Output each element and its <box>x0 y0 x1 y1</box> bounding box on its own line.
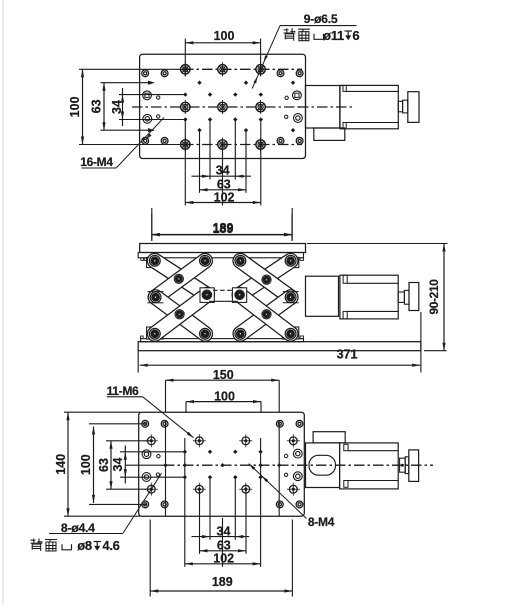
svg-text:16-M4: 16-M4 <box>80 155 113 169</box>
top view: horizontal center line row middle <box>132 106 303 108</box>
top view: leader 9-ø6.5 counterbore note <box>252 12 359 89</box>
side view: motor shaft <box>398 292 404 302</box>
svg-text:34: 34 <box>110 100 124 114</box>
bottom view: lower dimension 189 <box>150 575 292 593</box>
top view: horizontal center line row 1 <box>79 68 302 70</box>
svg-text:9-ø6.5: 9-ø6.5 <box>304 12 338 26</box>
top view: horizontal center line row bottom <box>79 144 302 146</box>
top view: lower dimension 189 <box>152 222 292 236</box>
bottom view: horizontal center line <box>126 464 316 466</box>
bottom view: leader 8-M4 <box>249 464 335 530</box>
svg-text:8-M4: 8-M4 <box>308 515 335 529</box>
side view: drive bracket <box>306 276 339 316</box>
bottom view: dimension 150 (top) <box>166 368 280 412</box>
bottom view: drive bracket top tab <box>313 432 345 443</box>
svg-text:63: 63 <box>97 458 111 472</box>
top view: 16 tapped holes M4 corner groups <box>142 70 303 144</box>
bottom view: leader 8-ø4.4 counterbore note <box>31 473 162 553</box>
side view: bottom carriage rail <box>141 336 304 342</box>
side view: motor body <box>340 275 398 319</box>
bottom view: left dimension 140 <box>54 412 70 516</box>
top view: left dimension 100 <box>68 69 183 144</box>
svg-text:63: 63 <box>217 177 231 191</box>
bottom view: vertical extension lines inside plate <box>166 421 280 516</box>
svg-text:102: 102 <box>214 190 235 204</box>
svg-text:ø8: ø8 <box>77 538 92 553</box>
bottom view: lower dimension 34 <box>192 524 250 538</box>
svg-text:34: 34 <box>216 164 230 178</box>
top view: stage plate outline <box>140 54 306 158</box>
svg-text:4.6: 4.6 <box>102 538 119 553</box>
top view: extension line row 34 top <box>119 94 184 96</box>
bottom view: motor body <box>340 443 399 489</box>
top view: left dimension 63 <box>90 83 106 131</box>
bottom view: leader 11-M6 <box>107 384 194 438</box>
svg-text:ø11: ø11 <box>323 28 344 43</box>
svg-text:189: 189 <box>213 221 234 235</box>
side view: top carriage rail <box>138 253 303 261</box>
bottom view: knob <box>409 450 419 482</box>
top view: left dimension 34 <box>110 88 124 126</box>
top view: knob <box>408 92 419 123</box>
top view: extension lines for top dimension 100 <box>185 39 260 77</box>
side view: knob hub <box>404 290 409 304</box>
top view: vertical extension lines to lower dimensions <box>185 121 260 206</box>
svg-text:150: 150 <box>213 368 234 382</box>
bottom view: small hole points pattern <box>163 450 281 480</box>
bottom view: knob hub <box>405 457 409 474</box>
side view: scissor pivot bearings <box>149 255 296 339</box>
top view: drive bracket lower step <box>314 128 345 140</box>
svg-text:90-210: 90-210 <box>427 279 441 315</box>
top view: center square broach holes <box>143 91 302 100</box>
bottom view: left dimension 63 <box>97 441 113 489</box>
side view: base plate <box>138 342 421 351</box>
scan artifact: faint page edge <box>2 0 4 604</box>
top view: small pilot holes <box>157 96 289 119</box>
bottom view: left dimension 100 <box>79 427 95 503</box>
svg-text:189: 189 <box>212 575 233 589</box>
top view: lower dimension 34 <box>192 164 252 178</box>
top view: extension line row 34 bottom <box>119 119 184 121</box>
side view: slider slots at outer middle pivots <box>148 292 299 303</box>
bottom view: base plate outline <box>139 412 305 516</box>
svg-text:371: 371 <box>337 347 358 361</box>
svg-text:140: 140 <box>54 454 68 475</box>
side view: knob <box>409 283 419 311</box>
svg-text:34: 34 <box>111 458 125 472</box>
top view: drive axis center line <box>298 106 352 108</box>
svg-text:8-ø4.4: 8-ø4.4 <box>61 521 95 535</box>
side view: scissor corner bearing blocks <box>147 257 299 339</box>
top view: small hole points row pattern <box>148 81 295 133</box>
svg-text:63: 63 <box>90 99 104 113</box>
bottom view: left dimension 34 <box>111 446 127 484</box>
side view: scissor arms <box>145 250 301 344</box>
bottom view: lower dimension 102 <box>185 552 261 566</box>
side view: top plate <box>140 244 306 253</box>
side view: height dimension 90-210 <box>307 244 448 351</box>
bottom view: M4 corner holes <box>142 420 303 507</box>
bottom view: bracket slot <box>309 455 336 475</box>
bottom view: horizontal extension row lines (left) <box>64 412 183 516</box>
bottom view: small pilot holes ø4.4 <box>156 454 288 476</box>
top view: counterbore side holes <box>143 114 302 124</box>
top view: motor body <box>340 85 398 128</box>
top view: leader 16-M4 <box>80 118 164 170</box>
top view: 9 counterbore holes ø6.5 grid <box>181 62 266 151</box>
top view: extension line row 63 bottom <box>101 129 151 131</box>
svg-text:11-M6: 11-M6 <box>107 384 139 398</box>
bottom view: vertical extension lines to lower dimensions <box>150 478 292 596</box>
side view: center link blocks <box>200 288 247 303</box>
bottom view: lower dimension 63 <box>200 538 247 552</box>
svg-text:102: 102 <box>213 552 234 566</box>
top view: extension line row 63 top <box>101 82 151 84</box>
top view: knob hub <box>403 100 408 113</box>
top view: motor shaft <box>398 101 402 112</box>
bottom view: drive bracket <box>306 443 340 488</box>
top view: lower dimension 63 <box>200 177 247 191</box>
top view: drive bracket block <box>306 86 340 129</box>
bottom view: dimension 100 (top) <box>186 389 261 413</box>
bottom view: M6 tapped holes <box>145 434 300 495</box>
top view: dimension 100 (top) <box>185 29 260 44</box>
bottom view: counterbore holes ø8 <box>142 449 302 481</box>
bottom view: motor shaft <box>400 458 406 472</box>
side view: dimension 371 <box>138 312 421 373</box>
svg-text:63: 63 <box>217 538 231 552</box>
side view: dimension 189 <box>152 214 292 241</box>
svg-text:34: 34 <box>217 524 231 538</box>
bottom view: drive axis center line <box>316 464 433 466</box>
svg-text:100: 100 <box>214 389 235 403</box>
svg-text:100: 100 <box>68 96 82 117</box>
svg-text:100: 100 <box>79 454 93 475</box>
svg-text:100: 100 <box>214 29 235 43</box>
top view: extension lines for dimension 189 <box>152 208 292 241</box>
top view: lower dimension 102 <box>185 190 260 204</box>
svg-text:6: 6 <box>352 28 359 43</box>
